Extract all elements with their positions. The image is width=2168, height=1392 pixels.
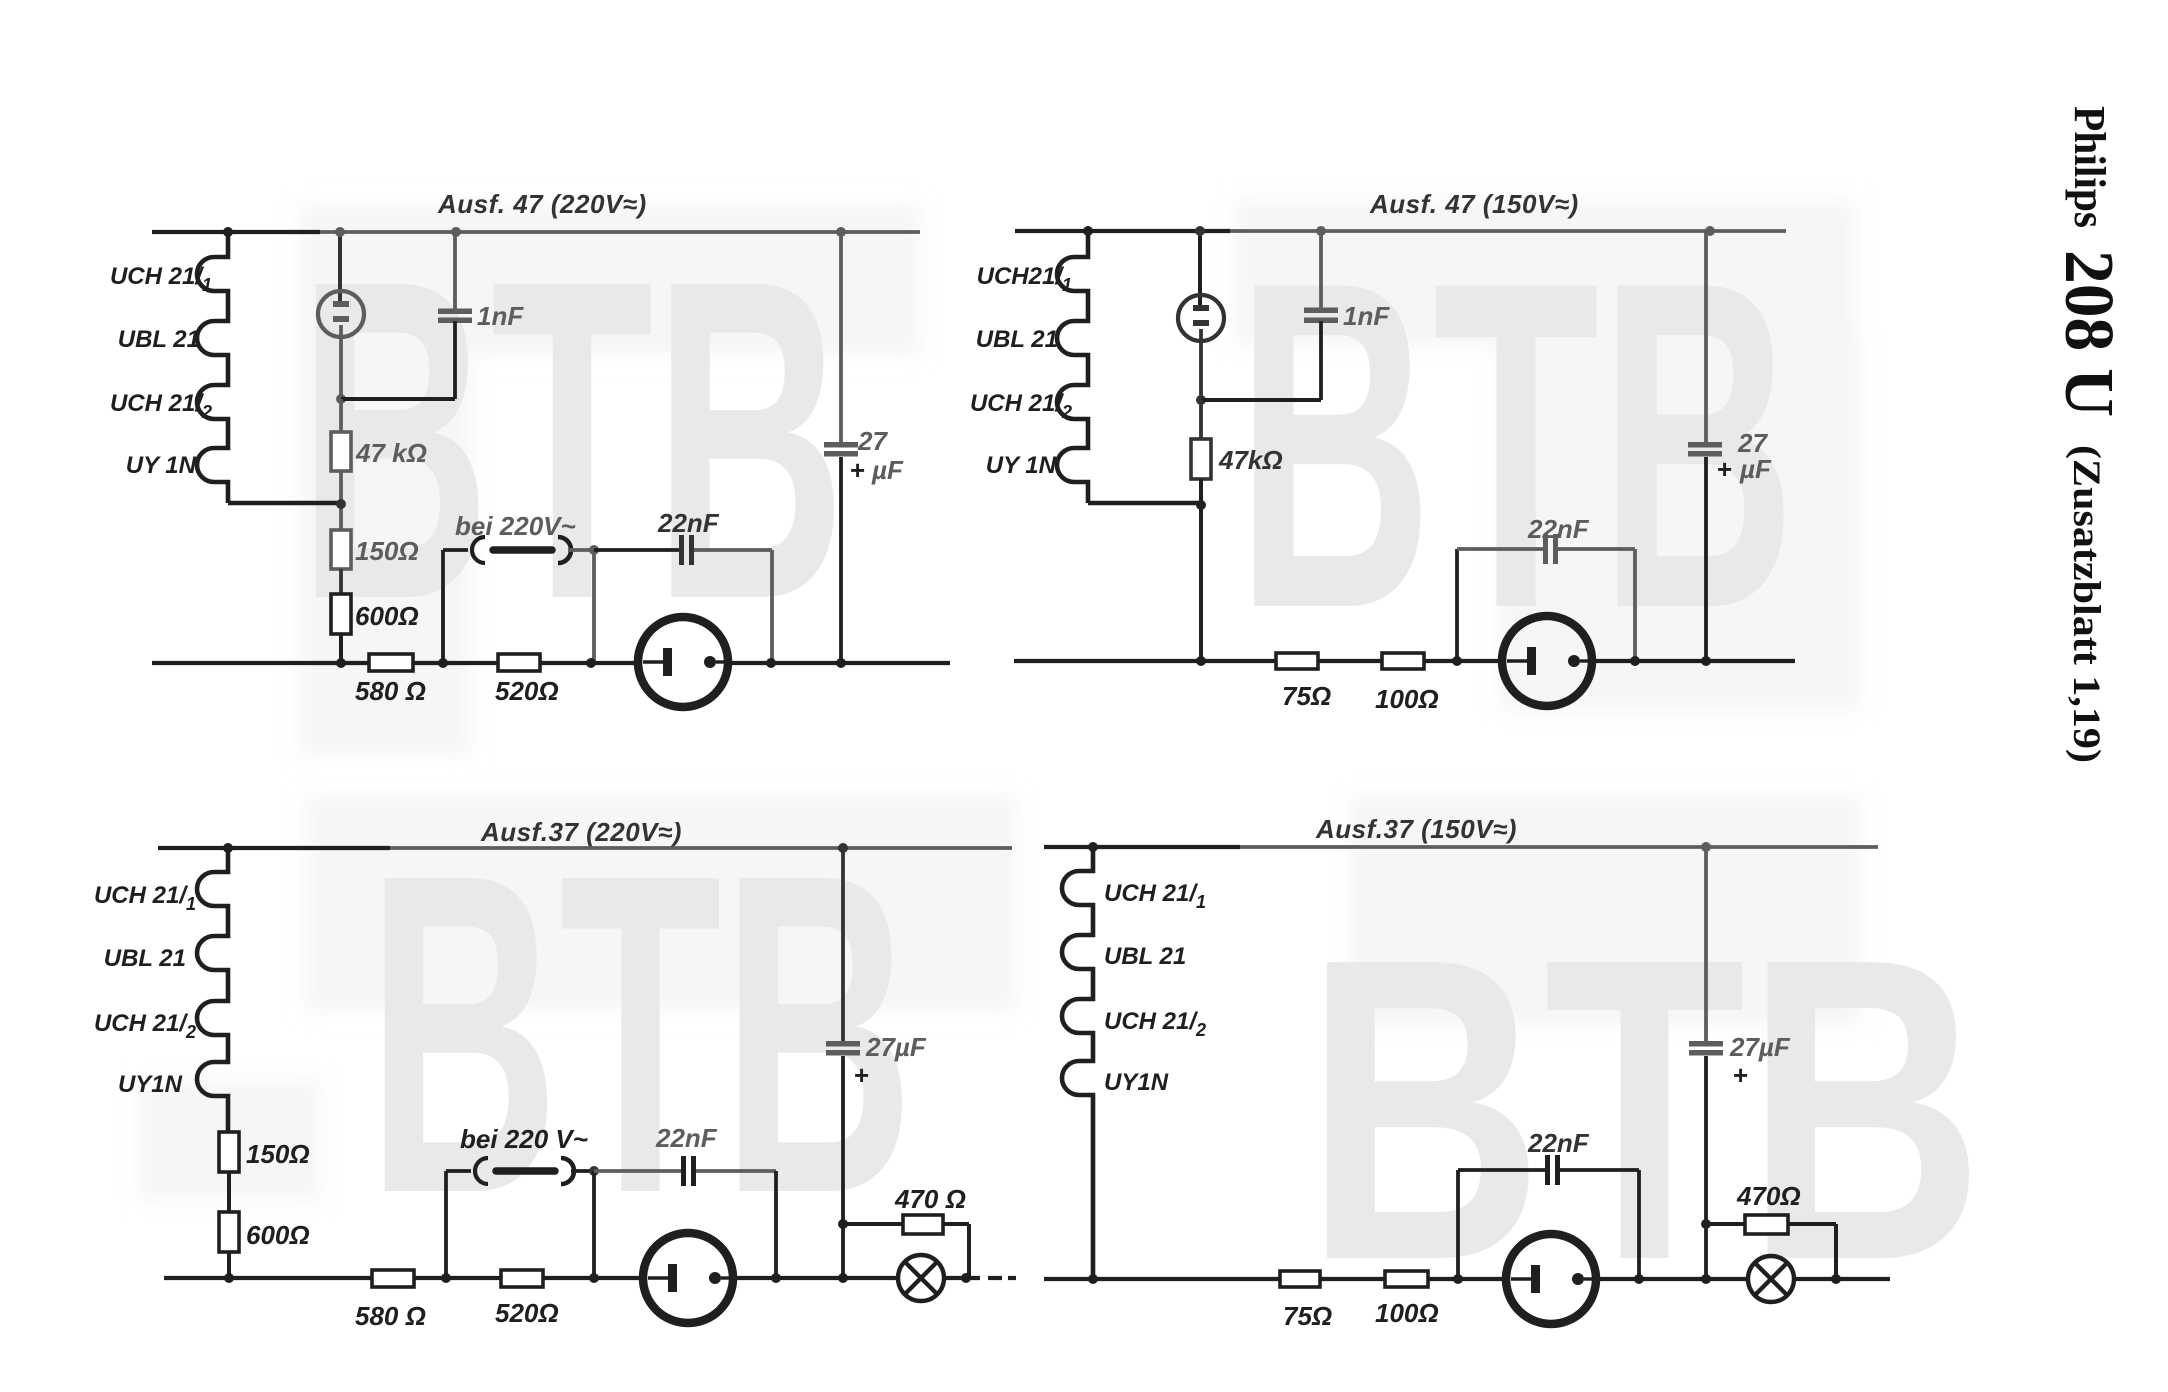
svg-text:UY 1N: UY 1N [126, 452, 197, 479]
top rail Ausf.47 150V [1015, 229, 1786, 233]
svg-text:22nF: 22nF [655, 1123, 718, 1153]
junction 470R on rail [1831, 1274, 1841, 1284]
capacitor 27uF top lead [1704, 231, 1708, 443]
svg-text:150Ω: 150Ω [246, 1139, 310, 1169]
capacitor 1nF plates [1304, 308, 1338, 324]
junction node B [589, 1166, 599, 1176]
bottom rail dashes [988, 1276, 1002, 1280]
svg-text:+: + [850, 455, 865, 485]
heater chain UCH21/1 UBL21 UCH21/2 UY1N [197, 232, 228, 503]
svg-text:520Ω: 520Ω [495, 676, 559, 706]
junction heater/top rail [1083, 226, 1093, 236]
wire node A to 1nF [1201, 398, 1321, 402]
svg-text:UCH 21/1: UCH 21/1 [94, 882, 196, 914]
capacitor 27uF top lead [841, 848, 845, 1042]
junction 470R tap [838, 1219, 848, 1229]
junction 470R on rail [961, 1273, 971, 1283]
junction 27uF on top rail [1701, 842, 1711, 852]
wire 22nF right drop [1637, 1170, 1641, 1279]
svg-text:27µF: 27µF [1729, 1032, 1791, 1062]
resistor 470 Ohm [1745, 1215, 1788, 1234]
junction node B on rail [586, 658, 596, 668]
svg-text:UCH21/1: UCH21/1 [977, 263, 1072, 295]
wire right drop of 22nF [770, 550, 774, 663]
svg-text:µF: µF [871, 455, 904, 485]
svg-text:+: + [1717, 454, 1732, 484]
link bei 220V (removable strap) [475, 1158, 574, 1184]
wire rail to dial lamp [1198, 231, 1202, 305]
junction 600R on rail [336, 658, 346, 668]
junction 22nF drop on rail [1634, 1274, 1644, 1284]
svg-text:UY1N: UY1N [1104, 1069, 1169, 1096]
wire rail up to link [441, 550, 445, 663]
pilot lamp (circle-X) [1748, 1256, 1794, 1302]
junction heater/top rail [1088, 842, 1098, 852]
capacitor 22nF plates [1545, 1155, 1560, 1185]
junction heater return [1196, 500, 1206, 510]
capacitor 1nF top lead [1319, 231, 1323, 309]
motor symbol M2 [1502, 616, 1592, 706]
heater chain UCH21/1 UBL21 UCH21/2 UY1N [1062, 847, 1093, 1279]
resistor 580 Ohm [369, 654, 413, 671]
wire to link symbol [443, 548, 468, 552]
bottom rail (return) Ausf.47 220V [152, 661, 639, 665]
link bei 220V (removable strap) [472, 537, 571, 563]
svg-text:UBL 21: UBL 21 [1104, 943, 1186, 970]
capacitor 27uF top lead [839, 232, 843, 443]
wire heater-bottom to 47k node [1088, 501, 1200, 506]
svg-text:150Ω: 150Ω [355, 536, 419, 566]
svg-text:22nF: 22nF [1527, 1128, 1590, 1158]
svg-text:Ausf. 47 (220V≈): Ausf. 47 (220V≈) [437, 189, 647, 219]
svg-text:22nF: 22nF [1527, 514, 1590, 544]
junction lamp branch on rail [1195, 226, 1205, 236]
svg-text:µF: µF [1739, 454, 1772, 484]
capacitor 1nF bottom lead [453, 321, 457, 399]
wire 150R to 600R [227, 1172, 231, 1212]
wire 600R to rail [227, 1252, 231, 1278]
resistor 100 Ohm [1382, 653, 1424, 669]
resistor 75 Ohm [1276, 653, 1318, 669]
svg-text:600Ω: 600Ω [246, 1220, 310, 1250]
svg-text:bei 220 V~: bei 220 V~ [460, 1124, 588, 1154]
wire right drop of 470R [967, 1224, 971, 1278]
svg-text:47 kΩ: 47 kΩ [355, 438, 427, 468]
bottom rail Ausf.37 220V [164, 1276, 644, 1280]
capacitor 1nF plates [438, 309, 472, 324]
wire 150R to 600R [339, 569, 343, 594]
wire rail up to 22nF [1456, 1170, 1460, 1279]
wire rail to dial lamp [338, 232, 342, 302]
junction 22nF left on rail [1453, 1274, 1463, 1284]
junction 27uF on bottom rail [838, 1273, 848, 1283]
wire 47k to bottom rail [1199, 479, 1203, 661]
wire 470R to right drop [1788, 1222, 1836, 1226]
resistor 580 Ohm [372, 1270, 414, 1287]
dial lamp (Skalenlampe) [318, 291, 364, 337]
capacitor 27uF top lead [1704, 847, 1708, 1042]
svg-text:UY 1N: UY 1N [986, 452, 1057, 479]
svg-text:470Ω: 470Ω [1736, 1181, 1801, 1211]
junction 22nF drop on rail [766, 658, 776, 668]
svg-text:Ausf. 47 (150V≈): Ausf. 47 (150V≈) [1369, 189, 1579, 219]
capacitor 22nF plates [681, 1156, 696, 1186]
wire node B to 22nF [594, 1169, 681, 1173]
junction node B [589, 545, 599, 555]
svg-text:520Ω: 520Ω [495, 1298, 559, 1328]
wire node A to 1nF [341, 397, 455, 401]
wire 470R to right drop [943, 1222, 969, 1226]
wire rail up to 22nF [1455, 549, 1459, 661]
svg-text:(Zusatzblatt 1,19): (Zusatzblatt 1,19) [2065, 445, 2108, 763]
junction 27uF on top rail [838, 843, 848, 853]
capacitor 22nF plates [1543, 534, 1558, 564]
heater chain UCH21/1 UBL21 UCH21/2 UY1N [197, 848, 228, 1132]
pilot lamp (circle-X) [898, 1255, 944, 1301]
svg-text:UBL 21: UBL 21 [976, 326, 1058, 353]
wire to link symbol [446, 1169, 471, 1173]
svg-text:UCH 21/1: UCH 21/1 [110, 263, 212, 295]
junction heater return [336, 499, 346, 509]
svg-text:UCH 21/2: UCH 21/2 [970, 390, 1072, 422]
wire lamp to node A [1199, 329, 1203, 400]
wire lamp to node A [339, 325, 343, 399]
junction node A (lamp/1nF/47k) [336, 394, 346, 404]
junction 27uF on bottom rail [1701, 656, 1711, 666]
junction 27uF on top rail [1705, 226, 1715, 236]
junction link branch on rail [438, 658, 448, 668]
capacitor 27uF plates [1688, 442, 1722, 457]
svg-text:UCH 21/2: UCH 21/2 [110, 390, 212, 422]
svg-text:UCH 21/2: UCH 21/2 [1104, 1008, 1206, 1040]
wire 47k to 150R [339, 471, 343, 530]
wire to 22nF [1458, 1168, 1545, 1172]
svg-text:27µF: 27µF [865, 1032, 927, 1062]
resistor 150 Ohm [219, 1132, 239, 1172]
top rail Ausf.37 150V [1044, 845, 1878, 849]
svg-text:bei 220V~: bei 220V~ [455, 511, 576, 541]
capacitor 27uF plates [1689, 1041, 1723, 1056]
junction 22nF drop on rail [1630, 656, 1640, 666]
capacitor 27uF bottom lead [839, 457, 843, 663]
svg-text:27: 27 [857, 426, 888, 456]
junction heater/top rail [223, 227, 233, 237]
junction 1nF on rail [1316, 226, 1326, 236]
junction 27uF on bottom rail [1701, 1274, 1711, 1284]
capacitor 27uF bottom lead [1704, 1056, 1708, 1279]
wire node B to 22nF [594, 548, 679, 552]
wire 22nF right [1560, 1168, 1639, 1172]
svg-text:UBL 21: UBL 21 [118, 326, 200, 353]
heater chain UCH21/1 UBL21 UCH21/2 UY1N [1057, 231, 1088, 503]
svg-text:UY1N: UY1N [118, 1071, 183, 1098]
resistor 470 Ohm [903, 1215, 943, 1234]
wire 22nF right drop [1633, 549, 1637, 661]
wire 600R to rail [339, 634, 343, 663]
capacitor 1nF top lead [453, 232, 457, 310]
bottom rail Ausf.47 150V [1014, 659, 1503, 663]
junction 22nF left on rail [1452, 656, 1462, 666]
wire link to node B [568, 548, 594, 552]
svg-text:Philips: Philips [2065, 106, 2114, 228]
wire rail up to link [444, 1171, 448, 1278]
capacitor 22nF plates [679, 535, 694, 565]
wire heater-bottom to 47k node [228, 501, 341, 506]
wire tap to 470R [1706, 1222, 1745, 1226]
wire link to node B [571, 1169, 594, 1173]
wire 22nF to right drop [694, 548, 772, 552]
wire to 22nF [1457, 547, 1543, 551]
junction node A [1196, 395, 1206, 405]
resistor 520 Ohm [498, 654, 540, 671]
svg-text:22nF: 22nF [657, 508, 720, 538]
wire 22nF to right drop [696, 1169, 776, 1173]
svg-text:UCH 21/1: UCH 21/1 [1104, 880, 1206, 912]
svg-text:Ausf.37 (150V≈): Ausf.37 (150V≈) [1315, 814, 1517, 844]
resistor 600 Ohm [219, 1212, 239, 1252]
resistor 47 kOhm [331, 432, 351, 471]
resistor 600 Ohm [331, 594, 351, 634]
svg-text:Ausf.37 (220V≈): Ausf.37 (220V≈) [480, 817, 682, 847]
svg-text:75Ω: 75Ω [1283, 1301, 1332, 1331]
junction 27uF on bottom rail [836, 658, 846, 668]
resistor 75 Ohm [1280, 1271, 1320, 1287]
bottom rail Ausf.37 150V [1044, 1277, 1507, 1281]
junction 22nF drop on rail [771, 1273, 781, 1283]
svg-text:1nF: 1nF [1343, 301, 1390, 331]
wire right drop of 470R [1834, 1224, 1838, 1279]
junction link branch on rail [441, 1273, 451, 1283]
capacitor 27uF bottom lead [1704, 457, 1708, 661]
svg-text:580 Ω: 580 Ω [355, 1301, 426, 1331]
capacitor 27uF plates [824, 442, 858, 457]
svg-text:+: + [854, 1060, 869, 1090]
resistor 150 Ohm [331, 530, 351, 569]
motor symbol M3 [643, 1233, 733, 1323]
wire node B down to rail [592, 550, 596, 663]
junction 1nF on rail [451, 227, 461, 237]
svg-text:100Ω: 100Ω [1375, 684, 1439, 714]
wire right drop of 22nF [774, 1171, 778, 1278]
resistor 47k lead [339, 399, 343, 433]
svg-text:BTB: BTB [367, 780, 914, 1288]
wire tap to 470R [843, 1222, 903, 1226]
top rail (phase) Ausf.47 220V [152, 230, 920, 234]
junction 470R tap [1701, 1219, 1711, 1229]
junction lamp branch on rail [335, 227, 345, 237]
svg-text:+: + [1733, 1060, 1748, 1090]
resistor 47k lead [1199, 400, 1203, 439]
top rail Ausf.37 220V [158, 846, 1012, 850]
resistor 520 Ohm [501, 1270, 543, 1287]
svg-text:UCH 21/2: UCH 21/2 [94, 1010, 196, 1042]
junction 600R on rail [224, 1273, 234, 1283]
capacitor 27uF plates [826, 1041, 860, 1056]
wire 22nF right [1558, 547, 1635, 551]
junction heater on bottom rail [1088, 1274, 1098, 1284]
capacitor 27uF bottom lead [841, 1056, 845, 1278]
resistor 47 kOhm [1191, 439, 1211, 479]
junction node B on rail [589, 1273, 599, 1283]
motor symbol M1 (circle with bar and dot) [638, 617, 728, 707]
junction heater/top rail [223, 843, 233, 853]
svg-text:470 Ω: 470 Ω [894, 1184, 966, 1214]
svg-text:47kΩ: 47kΩ [1218, 445, 1283, 475]
svg-text:1nF: 1nF [477, 301, 524, 331]
svg-text:100Ω: 100Ω [1375, 1298, 1439, 1328]
dial lamp (Skalenlampe) [1178, 295, 1224, 341]
motor symbol M4 [1506, 1234, 1596, 1324]
svg-text:600Ω: 600Ω [355, 601, 419, 631]
svg-text:580 Ω: 580 Ω [355, 676, 426, 706]
capacitor 1nF bottom lead [1319, 321, 1323, 400]
resistor 100 Ohm [1385, 1271, 1428, 1287]
svg-text:75Ω: 75Ω [1282, 681, 1331, 711]
junction 47k line on bottom rail [1196, 656, 1206, 666]
junction 27uF on top rail [836, 227, 846, 237]
svg-text:208 U: 208 U [2050, 250, 2127, 417]
svg-text:UBL 21: UBL 21 [104, 945, 186, 972]
wire node B down to rail [592, 1171, 596, 1278]
